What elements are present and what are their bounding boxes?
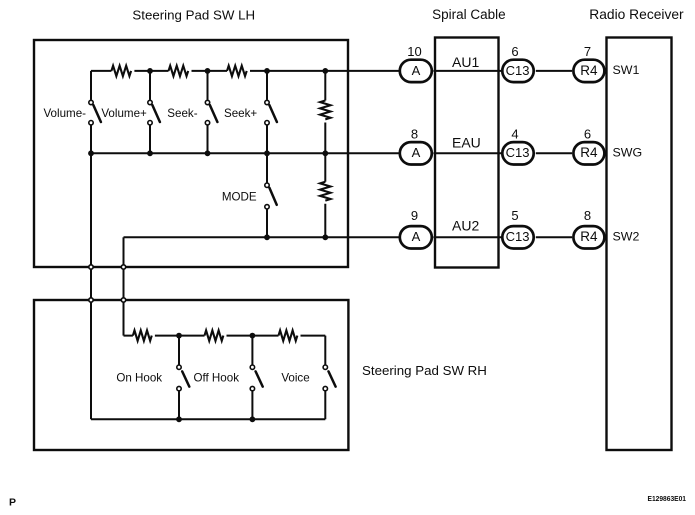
junction dots RH rails <box>176 333 182 339</box>
connector A pin 9 row3 <box>400 226 432 248</box>
svg-text:5: 5 <box>511 208 518 223</box>
svg-text:SW1: SW1 <box>613 63 640 77</box>
resistor RH R-g <box>205 330 224 340</box>
svg-text:6: 6 <box>511 44 518 59</box>
switch Seek- column wires <box>207 71 209 153</box>
svg-text:R4: R4 <box>580 63 598 78</box>
switch On Hook column wires <box>178 336 180 420</box>
connector C13 pin 4 row2 <box>502 142 533 164</box>
component box Spiral Cable <box>435 38 499 268</box>
svg-text:Radio Receiver: Radio Receiver <box>589 7 684 22</box>
wire RH top rail <box>124 335 326 337</box>
switch Off Hook blade <box>256 371 263 386</box>
svg-text:8: 8 <box>411 126 418 141</box>
switch On Hook blade <box>182 371 189 386</box>
svg-text:C13: C13 <box>506 145 530 160</box>
switch Off Hook contacts <box>250 365 254 369</box>
switch Off Hook column wires <box>251 336 253 420</box>
connector R4 pin 8 row3 <box>573 226 604 248</box>
wire rail3 net AU2 (lower rail of LH box to connector A) <box>124 236 399 238</box>
switch MODE contacts <box>265 183 269 187</box>
wire rail1 net AU1 (top rail of LH box to connector A) <box>91 70 399 72</box>
wire drop x=123.5 from rail3 to RH top rail <box>123 237 125 335</box>
svg-text:MODE: MODE <box>222 191 257 204</box>
junction dots rail1 <box>147 68 153 74</box>
switch Volume- blade <box>93 105 101 122</box>
connector A pin 10 row1 <box>400 60 432 82</box>
wire row3 through spiral cable to R4 <box>433 236 572 238</box>
component box Radio Receiver <box>607 38 672 451</box>
svg-text:Volume-: Volume- <box>43 107 86 120</box>
resistor LH vertical R-d zigzag <box>320 101 330 120</box>
svg-text:Spiral Cable: Spiral Cable <box>432 7 506 22</box>
wire left drop x=91 from rail2 to RH bottom rail <box>90 153 92 419</box>
component box Steering Pad SW RH <box>34 300 348 450</box>
svg-text:A: A <box>412 145 421 160</box>
connector R4 pin 6 row2 <box>573 142 604 164</box>
switch Seek- contacts <box>205 100 209 104</box>
switch Seek- blade <box>210 105 218 122</box>
switch Voice column wires <box>324 336 326 420</box>
svg-text:On Hook: On Hook <box>116 371 162 384</box>
switch Volume- column wires <box>90 71 92 153</box>
wire row1 through spiral cable to R4 <box>433 70 572 72</box>
svg-text:AU2: AU2 <box>452 218 479 234</box>
terminal circles on RH box top edge <box>89 298 93 302</box>
svg-text:C13: C13 <box>506 63 530 78</box>
wire RH bottom rail <box>91 418 325 420</box>
resistor RH R-f <box>133 330 152 340</box>
svg-text:8: 8 <box>584 208 591 223</box>
switch Volume+ contacts <box>148 100 152 104</box>
svg-text:R4: R4 <box>580 229 598 244</box>
connector A pin 8 row2 <box>400 142 432 164</box>
svg-text:Volume+: Volume+ <box>101 107 147 120</box>
svg-text:AU1: AU1 <box>452 54 479 70</box>
terminal circles on LH box bottom edge <box>89 265 93 269</box>
wire row2 through spiral cable to R4 <box>433 152 572 154</box>
wire rail2 net EAU (middle rail of LH box to connector A) <box>91 152 399 154</box>
svg-text:9: 9 <box>411 208 418 223</box>
resistor LH R-b (Volume+ / Seek-) <box>169 66 189 76</box>
junction dots rail2 <box>88 150 94 156</box>
switch Voice contacts <box>323 365 327 369</box>
switch Volume+ blade <box>152 105 160 122</box>
resistor RH R-h <box>279 330 298 340</box>
svg-text:E129863E01: E129863E01 <box>648 494 687 503</box>
svg-text:A: A <box>412 63 421 78</box>
svg-text:Off Hook: Off Hook <box>193 371 239 384</box>
svg-text:7: 7 <box>584 44 591 59</box>
switch Voice blade <box>329 371 336 386</box>
svg-text:6: 6 <box>584 126 591 141</box>
svg-text:10: 10 <box>407 44 421 59</box>
switch On Hook contacts <box>177 365 181 369</box>
switch Seek+ column wires <box>266 71 268 153</box>
svg-text:4: 4 <box>511 126 518 141</box>
resistor LH vertical R-e wires <box>324 153 326 237</box>
svg-text:P: P <box>9 497 16 509</box>
switch Volume- contacts <box>89 100 93 104</box>
resistor LH vertical R-e zigzag <box>320 182 330 201</box>
component box Steering Pad SW LH <box>34 40 348 267</box>
svg-text:SW2: SW2 <box>613 229 640 243</box>
svg-text:C13: C13 <box>506 229 530 244</box>
switch Seek+ blade <box>269 105 277 122</box>
connector R4 pin 7 row1 <box>573 60 604 82</box>
connector C13 pin 5 row3 <box>502 226 533 248</box>
svg-text:A: A <box>412 229 421 244</box>
connector C13 pin 6 row1 <box>502 60 533 82</box>
svg-text:Seek+: Seek+ <box>224 107 257 120</box>
resistor LH R-c (Seek- / Seek+) <box>227 66 247 76</box>
resistor LH R-a (Volume- / Volume+) <box>111 66 131 76</box>
switch MODE column wires <box>266 153 268 237</box>
switch Volume+ column wires <box>149 71 151 153</box>
svg-text:SWG: SWG <box>613 145 643 159</box>
svg-text:Voice: Voice <box>281 371 309 384</box>
junction dots rail3 <box>264 234 270 240</box>
switch Seek+ contacts <box>265 100 269 104</box>
svg-text:Steering Pad SW LH: Steering Pad SW LH <box>132 7 255 22</box>
svg-text:Steering Pad SW RH: Steering Pad SW RH <box>362 363 487 378</box>
switch MODE blade <box>269 188 276 205</box>
svg-text:EAU: EAU <box>452 135 481 151</box>
svg-text:Seek-: Seek- <box>167 107 197 120</box>
resistor LH vertical R-d wires <box>324 71 326 153</box>
svg-text:R4: R4 <box>580 145 598 160</box>
